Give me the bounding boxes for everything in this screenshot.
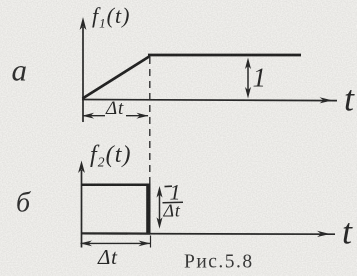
t-axis plot b <box>82 231 336 237</box>
pulse top edge <box>82 184 151 187</box>
dimension delta-t plot b <box>80 236 151 248</box>
fraction 1/delta-t : top dash <box>165 185 173 187</box>
pulse bottom edge on axis <box>82 232 151 235</box>
fraction bar <box>163 201 184 204</box>
dashed line at delta t <box>149 57 151 184</box>
pulse right edge thick <box>146 184 150 234</box>
paper grain <box>0 0 1 1</box>
dimension delta-t plot a <box>82 113 149 119</box>
arrow height 1 <box>245 58 251 99</box>
flat segment f1 level 1 <box>148 54 301 57</box>
axis f1 vertical <box>80 17 87 122</box>
axis f2 vertical <box>78 161 85 248</box>
ramp segment f1 <box>83 56 151 99</box>
arrow height 1/dt <box>157 186 163 229</box>
t-axis plot a <box>82 97 337 103</box>
